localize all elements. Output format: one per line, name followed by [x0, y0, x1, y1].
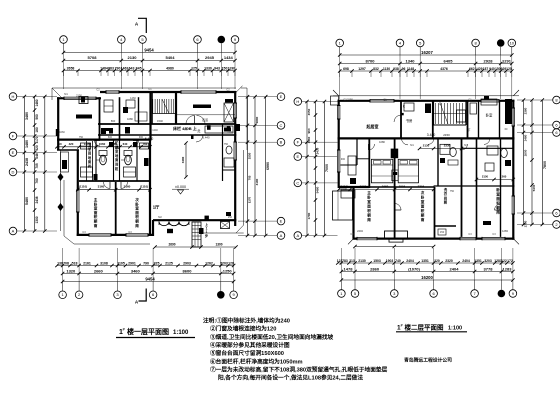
- svg-text:1330: 1330: [204, 66, 212, 70]
- svg-text:180: 180: [35, 127, 39, 133]
- svg-text:2690: 2690: [168, 242, 175, 246]
- svg-text:1660: 1660: [382, 184, 389, 188]
- svg-text:朝: 朝: [496, 205, 500, 210]
- svg-text:1:100: 1:100: [448, 326, 462, 332]
- svg-text:1340: 1340: [406, 58, 416, 63]
- right plan dark rect bottom right: [483, 221, 491, 225]
- svg-text:1780: 1780: [524, 220, 528, 227]
- axis bubble 9 bottom-left-plan: [230, 291, 238, 299]
- right plan bottom wall: [353, 238, 515, 240]
- axis bubble 8 top-right-plan: [472, 39, 480, 47]
- svg-text:3160: 3160: [98, 185, 105, 189]
- right plan partition rv5: [478, 100, 480, 138]
- svg-text:138: 138: [57, 261, 63, 265]
- right plan internal dim row 2: [420, 148, 462, 150]
- left plan partition v6: [149, 139, 151, 235]
- svg-text:卧: 卧: [94, 201, 98, 206]
- axis bubble 6 bottom-left-plan: [149, 291, 157, 299]
- left plan window top-mid: [106, 90, 119, 93]
- svg-text:325: 325: [154, 261, 160, 265]
- left plan upper furniture bar: [193, 105, 211, 109]
- left plan corridor line: [176, 114, 235, 116]
- axis bubble 6 bottom-right-plan: [430, 290, 438, 298]
- left plan internal vdim living: [185, 143, 187, 177]
- right plan under-building ticks: [355, 246, 434, 248]
- svg-text:2438: 2438: [25, 158, 29, 166]
- right plan stair rail: [457, 110, 466, 122]
- left plan bath fixtures: [100, 155, 107, 165]
- left plan left dimension inner col: [44, 97, 46, 232]
- left plan left dimension mid col: [34, 97, 36, 232]
- svg-text:213: 213: [349, 259, 355, 263]
- right plan partition rv2: [400, 100, 402, 138]
- left plan partition v3: [149, 91, 151, 141]
- right plan window top-2: [481, 99, 499, 102]
- left plan door bath-1: [95, 141, 101, 147]
- svg-text:B: B: [280, 140, 283, 145]
- left plan top dimension total row: [64, 52, 236, 54]
- right plan top axis leaders: [339, 47, 341, 55]
- svg-text:M1: M1: [410, 144, 414, 147]
- svg-text:6405: 6405: [444, 58, 454, 63]
- right plan door r3: [428, 138, 434, 144]
- svg-text:7800: 7800: [543, 161, 547, 169]
- axis bubble 6 top-left-plan: [194, 36, 202, 44]
- svg-text:M1: M1: [464, 144, 468, 147]
- right plan laundry wall: [435, 225, 457, 227]
- svg-text:790: 790: [115, 66, 121, 70]
- left plan top wall left part: [57, 97, 101, 99]
- svg-text:750: 750: [450, 190, 455, 193]
- right plan partition rv7: [356, 138, 358, 165]
- axis bubble E left-left-plan: [9, 149, 17, 157]
- right plan bed 1: [371, 159, 392, 183]
- left plan upper-mid fixtures: [104, 100, 113, 112]
- left plan left extension lines: [17, 96, 57, 98]
- left plan partition v4: [175, 91, 177, 124]
- axis bubble 6 right-right-plan: [553, 209, 560, 217]
- svg-text:900: 900: [341, 158, 346, 161]
- left plan bottom wall living: [153, 219, 236, 221]
- svg-text:1283: 1283: [502, 229, 508, 233]
- svg-text:125: 125: [191, 66, 197, 70]
- svg-text:9454: 9454: [145, 276, 155, 281]
- left plan top dimension minor row: [64, 70, 236, 72]
- svg-text:1283: 1283: [503, 266, 513, 271]
- svg-text:南: 南: [135, 223, 139, 228]
- svg-text:室: 室: [421, 199, 425, 204]
- svg-text:(1110): (1110): [340, 184, 348, 188]
- svg-text:2380: 2380: [524, 107, 528, 114]
- svg-text:2404: 2404: [357, 229, 363, 233]
- svg-text:900: 900: [139, 136, 144, 139]
- right plan window right-2: [512, 196, 515, 214]
- svg-text:750: 750: [79, 136, 84, 139]
- svg-text:8700: 8700: [366, 58, 376, 63]
- axis bubble F left-right-plan: [294, 138, 302, 146]
- left plan window right upper: [234, 103, 237, 118]
- axis bubble 8 bottom-left-plan: [217, 291, 225, 299]
- axis bubble 3 bottom-left-plan: [114, 291, 122, 299]
- axis bubble 8 bottom-right-plan: [498, 290, 506, 298]
- right plan top extension lines: [339, 55, 341, 99]
- right plan door r7: [495, 204, 501, 210]
- svg-text:⑥台面栏杆,栏杆净高度均为1050mm: ⑥台面栏杆,栏杆净高度均为1050mm: [210, 357, 303, 365]
- svg-text:1504: 1504: [399, 184, 406, 188]
- svg-text:3778: 3778: [484, 266, 494, 271]
- svg-text:1297: 1297: [358, 67, 366, 71]
- left plan right extension lines: [238, 96, 277, 98]
- left plan stair enclosure: [151, 91, 153, 124]
- right plan left extension lines: [302, 101, 338, 103]
- right plan bay window bottom: [385, 231, 408, 239]
- svg-text:朝: 朝: [367, 213, 371, 218]
- svg-text:6990: 6990: [266, 162, 270, 170]
- axis bubble A right-left-plan: [277, 232, 285, 240]
- svg-text:面: 面: [421, 204, 425, 209]
- right plan staircase: [435, 103, 437, 124]
- svg-text:青岛腾远工程设计公司: 青岛腾远工程设计公司: [404, 357, 452, 364]
- right plan terrace outline: [333, 191, 353, 220]
- svg-text:1780: 1780: [307, 212, 311, 219]
- svg-text:南: 南: [94, 223, 98, 228]
- left plan bottom dimension major row: [63, 273, 234, 275]
- left plan bottom axis leaders: [62, 282, 64, 292]
- svg-text:1105: 1105: [117, 261, 125, 265]
- svg-text:朝: 朝: [135, 219, 139, 224]
- right plan door r6: [395, 204, 402, 211]
- axis bubble 8 top-left-plan: [218, 36, 226, 44]
- svg-text:600: 600: [108, 136, 113, 139]
- svg-text:16200: 16200: [421, 275, 433, 280]
- right plan partition rv10: [437, 138, 439, 186]
- left plan under-living dim row: [155, 246, 236, 248]
- axis bubble E left-right-plan: [294, 153, 302, 161]
- svg-text:2550: 2550: [248, 152, 252, 159]
- svg-text:250: 250: [228, 216, 233, 219]
- left plan partition v2b: [138, 97, 140, 124]
- left plan top wall right part: [100, 91, 236, 93]
- svg-text:3160: 3160: [124, 185, 131, 189]
- svg-text:卧: 卧: [367, 195, 371, 200]
- left plan internal dim row bath: [57, 146, 150, 148]
- svg-text:床: 床: [185, 127, 188, 131]
- svg-text:面: 面: [94, 210, 98, 215]
- axis bubble 1 top-left-plan: [60, 36, 68, 44]
- svg-text:4376: 4376: [440, 67, 448, 71]
- axis bubble 4 top-left-plan: [118, 36, 126, 44]
- left plan bottom dimension total row: [63, 281, 234, 283]
- right plan wardrobe mid: [391, 149, 399, 159]
- left plan partition v5: [115, 182, 117, 235]
- svg-text:E: E: [280, 94, 283, 99]
- svg-text:60: 60: [58, 142, 62, 146]
- svg-text:2928: 2928: [484, 58, 494, 63]
- svg-text:560: 560: [35, 114, 39, 120]
- left plan left dimension outer col: [23, 97, 25, 232]
- right plan partition rv4: [467, 100, 469, 138]
- svg-text:3480: 3480: [181, 156, 185, 163]
- svg-text:1130: 1130: [383, 67, 390, 71]
- left plan mid wall left part: [57, 139, 151, 141]
- svg-text:2860: 2860: [370, 266, 380, 271]
- svg-text:3460: 3460: [131, 268, 141, 273]
- axis bubble 1 top-right-plan: [336, 39, 344, 47]
- axis bubble 1 bottom-right-plan: [338, 290, 346, 298]
- right plan lower-left exterior wall: [352, 187, 354, 239]
- svg-text:6.490: 6.490: [145, 137, 154, 141]
- svg-text:1080: 1080: [127, 117, 133, 121]
- left plan kitchen counter: [205, 126, 233, 133]
- svg-text:783: 783: [342, 259, 348, 263]
- right plan top dimension minor row: [340, 70, 512, 72]
- svg-text:1484: 1484: [100, 66, 108, 70]
- svg-text:1105: 1105: [84, 142, 91, 146]
- left plan band fixtures: [101, 128, 106, 134]
- axis bubble 5 bottom-right-plan: [351, 290, 359, 298]
- svg-text:1320: 1320: [66, 268, 76, 273]
- right plan right extension lines: [517, 99, 553, 101]
- left plan door bed-1: [104, 182, 111, 189]
- left plan mid wall right upper: [98, 123, 236, 125]
- left plan AC box: [221, 222, 230, 229]
- svg-text:主: 主: [94, 197, 98, 202]
- left plan bath bottom wall: [79, 180, 150, 182]
- svg-text:187: 187: [483, 67, 489, 71]
- svg-text:3.440: 3.440: [427, 133, 436, 137]
- svg-text:2150: 2150: [76, 94, 82, 98]
- svg-text:⑤窗台台面尺寸留洞150X600: ⑤窗台台面尺寸留洞150X600: [210, 349, 284, 357]
- right plan chimney stub: [484, 96, 489, 101]
- svg-text:次: 次: [135, 197, 139, 202]
- right plan partition rv3: [432, 100, 434, 138]
- left plan window top-left: [64, 97, 96, 100]
- svg-text:面: 面: [496, 196, 500, 201]
- svg-text:128: 128: [228, 261, 234, 265]
- left plan left small room box: [62, 160, 67, 169]
- svg-text:2880: 2880: [255, 116, 259, 123]
- svg-text:楼二层平面图: 楼二层平面图: [405, 323, 445, 332]
- svg-text:705: 705: [248, 175, 252, 180]
- svg-text:C: C: [280, 123, 283, 128]
- right plan window left-2: [337, 150, 340, 172]
- svg-text:2125: 2125: [165, 261, 173, 265]
- right plan eave top line: [333, 95, 519, 97]
- svg-text:1180: 1180: [111, 142, 118, 146]
- axis bubble H left-right-plan: [294, 98, 302, 106]
- left plan mid wall right lower: [98, 134, 236, 136]
- svg-text:883: 883: [108, 66, 114, 70]
- right plan nightstand: [392, 170, 398, 181]
- svg-text:柜: 柜: [114, 166, 119, 171]
- left plan door corridor-2: [197, 116, 206, 125]
- svg-text:室: 室: [135, 206, 139, 211]
- svg-text:主: 主: [367, 190, 371, 195]
- left plan door bed-2: [121, 182, 128, 189]
- svg-text:740: 740: [395, 259, 401, 263]
- axis bubble A left-left-plan: [9, 227, 17, 235]
- left plan window right mid: [234, 142, 237, 160]
- left plan window top-right: [181, 90, 216, 93]
- axis bubble 6 right-right-plan: [553, 129, 560, 137]
- svg-text:6.440: 6.440: [203, 136, 210, 140]
- svg-text:积: 积: [135, 214, 139, 219]
- left plan table in living-up: [76, 115, 92, 119]
- svg-text:下: 下: [467, 128, 470, 132]
- svg-text:(1110): (1110): [79, 185, 87, 189]
- right plan mid wall: [338, 137, 515, 139]
- svg-text:±0.000: ±0.000: [175, 185, 186, 189]
- svg-text:卧室: 卧室: [486, 113, 493, 118]
- svg-text:1434: 1434: [224, 55, 234, 60]
- svg-text:1080: 1080: [379, 140, 385, 144]
- svg-text:②门窗及墙根连接均为120: ②门窗及墙根连接均为120: [210, 325, 276, 333]
- svg-text:1300: 1300: [35, 216, 39, 223]
- svg-text:1190: 1190: [228, 66, 236, 70]
- svg-text:1170: 1170: [248, 196, 252, 203]
- left plan right dimension cols: [247, 97, 249, 236]
- svg-text:2430: 2430: [316, 147, 320, 154]
- svg-text:2903: 2903: [183, 261, 191, 265]
- svg-text:注明:①图中除标注外,墙体均为240: 注明:①图中除标注外,墙体均为240: [203, 317, 290, 325]
- svg-text:3480: 3480: [25, 112, 29, 120]
- right plan bath fixtures mid: [440, 144, 450, 154]
- svg-text:室: 室: [367, 199, 371, 204]
- svg-text:1478: 1478: [344, 266, 354, 271]
- left plan right small room fixtures: [224, 158, 234, 167]
- left plan bottom extension lines: [62, 248, 64, 282]
- svg-text:2404: 2404: [450, 266, 460, 271]
- axis bubble 6 right-right-plan: [553, 121, 560, 129]
- svg-text:1300: 1300: [215, 242, 222, 246]
- svg-text:2130: 2130: [358, 259, 366, 263]
- axis bubble E right-left-plan: [277, 93, 285, 101]
- svg-text:938: 938: [393, 67, 399, 71]
- svg-text:卧: 卧: [135, 201, 139, 206]
- svg-text:960: 960: [307, 128, 311, 133]
- svg-text:2130: 2130: [423, 143, 430, 147]
- svg-text:1463: 1463: [121, 66, 129, 70]
- right plan partition rv14: [368, 138, 370, 188]
- right plan stair walls: [433, 100, 435, 125]
- left plan door corridor-1: [186, 116, 195, 125]
- right plan bed 2: [398, 159, 418, 183]
- right plan left dimension cols: [306, 102, 308, 236]
- axis bubble 8 right-right-plan: [553, 96, 560, 104]
- svg-text:走道: 走道: [202, 117, 208, 122]
- axis bubble D left-left-plan: [9, 168, 17, 176]
- axis bubble 2 right-right-plan: [553, 221, 560, 229]
- svg-text:朝: 朝: [94, 219, 98, 224]
- left plan window bottom-2: [126, 233, 148, 236]
- svg-text:楼一层平面图: 楼一层平面图: [127, 327, 169, 336]
- left plan staircase: [152, 99, 154, 114]
- right plan eave corners: [333, 90, 519, 244]
- svg-text:D: D: [12, 169, 15, 174]
- svg-text:708: 708: [63, 261, 69, 265]
- right plan left wall: [338, 100, 340, 188]
- svg-text:室: 室: [94, 206, 98, 211]
- left plan left transition wall: [57, 149, 79, 151]
- axis bubble 4 top-right-plan: [396, 39, 404, 47]
- svg-text:3160: 3160: [360, 184, 367, 188]
- svg-text:④采暖部分参见其他采暖设计图: ④采暖部分参见其他采暖设计图: [210, 341, 290, 349]
- svg-text:2150: 2150: [443, 133, 450, 137]
- axis bubble 3 bottom-right-plan: [391, 290, 399, 298]
- svg-text:943: 943: [214, 66, 220, 70]
- axis bubble E right-left-plan: [277, 217, 285, 225]
- svg-text:M1: M1: [64, 93, 68, 96]
- svg-text:832: 832: [373, 67, 379, 71]
- left plan partition v1: [99, 97, 101, 140]
- svg-text:760: 760: [143, 142, 148, 146]
- left plan bay dark block: [167, 229, 173, 233]
- svg-text:1100: 1100: [227, 130, 233, 134]
- axis bubble 1 bottom-left-plan: [59, 291, 67, 299]
- svg-text:南: 南: [421, 217, 425, 222]
- svg-text:2945: 2945: [205, 55, 215, 60]
- svg-text:1600: 1600: [524, 149, 528, 156]
- right plan door r1: [402, 138, 409, 145]
- svg-text:1480: 1480: [25, 140, 29, 148]
- left plan window bottom-1: [89, 233, 111, 236]
- svg-text:125: 125: [506, 67, 512, 71]
- svg-text:上: 上: [438, 100, 441, 105]
- right plan bottom extension lines: [340, 248, 342, 280]
- svg-text:3108: 3108: [100, 261, 108, 265]
- svg-text:1240: 1240: [152, 129, 158, 132]
- right plan internal dim right: [477, 179, 514, 181]
- right plan partition rv6: [499, 100, 501, 138]
- right plan bottom dimension minor row: [338, 262, 513, 264]
- left plan partition v7: [222, 124, 224, 135]
- right plan balcony box left: [331, 96, 339, 105]
- svg-text:1291: 1291: [502, 58, 512, 63]
- axis bubble A left-right-plan: [294, 232, 302, 240]
- svg-text:积: 积: [496, 201, 500, 206]
- svg-text:E: E: [12, 150, 15, 155]
- svg-text:790: 790: [143, 261, 149, 265]
- svg-text:积: 积: [421, 208, 425, 213]
- svg-text:2330: 2330: [444, 143, 451, 147]
- svg-text:面: 面: [135, 210, 139, 215]
- svg-text:1429: 1429: [475, 67, 483, 71]
- svg-text:朝: 朝: [421, 213, 425, 218]
- axis bubble 9 top-left-plan: [231, 36, 239, 44]
- svg-text:1351: 1351: [474, 259, 482, 263]
- svg-text:5708: 5708: [88, 55, 98, 60]
- svg-text:643: 643: [129, 66, 135, 70]
- right plan right wall: [512, 100, 514, 240]
- left plan top extension lines: [63, 52, 65, 89]
- left plan partition v2: [119, 97, 121, 140]
- svg-text:260: 260: [502, 175, 507, 179]
- axis bubble C right-left-plan: [277, 122, 285, 130]
- right plan window bottom-1: [357, 237, 377, 240]
- axis bubble 9 top-right-plan: [497, 39, 505, 47]
- axis bubble 9 bottom-right-plan: [509, 290, 517, 298]
- svg-text:698: 698: [343, 67, 349, 71]
- svg-text:5203: 5203: [220, 261, 228, 265]
- left plan living dark box: [226, 212, 231, 216]
- right plan partition rv11: [461, 138, 463, 239]
- svg-text:2150: 2150: [482, 175, 489, 179]
- svg-text:1460: 1460: [130, 96, 136, 100]
- axis bubble B right-left-plan: [277, 138, 285, 146]
- svg-text:积: 积: [367, 208, 371, 213]
- right plan closet top-right: [505, 99, 512, 124]
- svg-text:面: 面: [367, 204, 371, 209]
